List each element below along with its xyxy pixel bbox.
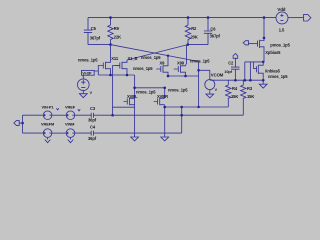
- svg-text:10pf: 10pf: [224, 69, 232, 74]
- node dot X9 source: [167, 75, 170, 78]
- ground below VCOM: [206, 90, 214, 98]
- wire N drop left: [244, 62, 246, 80]
- wire pmos drain to N: [263, 53, 265, 62]
- wire tail leg down: [134, 75, 136, 105]
- transistor X1B: [115, 56, 138, 75]
- capacitor C6: [204, 18, 221, 45]
- wire input split vertical: [22, 115, 24, 133]
- svg-text:nmos_1p5: nmos_1p5: [141, 55, 161, 60]
- wire X1B gate down to tail link: [113, 66, 120, 108]
- svg-text:R4: R4: [232, 86, 238, 91]
- wire diff pair source rail: [98, 74, 134, 76]
- wire diagonal D1 left output to second stage: [111, 45, 199, 62]
- node dot summing on rail A: [180, 114, 183, 117]
- wire rail B input bottom: [75, 132, 91, 134]
- wire VREFM to VINM: [52, 132, 66, 134]
- node dot N drop2: [249, 79, 252, 82]
- ground below VREFM: [45, 137, 51, 142]
- svg-text:nmos_1p5: nmos_1p5: [136, 89, 156, 94]
- node dot C6 top: [207, 16, 210, 19]
- transistor X9: [156, 60, 168, 76]
- wire summing vertical: [181, 107, 183, 133]
- port output right: [304, 14, 311, 21]
- svg-text:X99: X99: [177, 60, 185, 65]
- node dot M at second stage vertical: [197, 106, 199, 108]
- svg-text:VCOM: VCOM: [211, 72, 224, 77]
- svg-text:VREFM: VREFM: [41, 121, 54, 126]
- voltage source VCOM: [205, 72, 224, 89]
- svg-text:nmos_1p5: nmos_1p5: [268, 74, 288, 79]
- wire X9 drain to D1: [167, 56, 169, 65]
- node dot X11 source: [109, 74, 112, 77]
- node dot C2 bottom: [234, 79, 237, 82]
- svg-text:VINM: VINM: [65, 121, 74, 126]
- svg-text:nmos_1p5: nmos_1p5: [190, 58, 210, 63]
- wire nbias diode loop: [252, 62, 254, 69]
- capacitor C3: [88, 106, 243, 123]
- wire input to VREFM: [23, 132, 44, 134]
- wire XVBL source to ground: [134, 105, 136, 137]
- wire VINP1 to VREF: [52, 114, 66, 116]
- voltage source VINM: [65, 121, 75, 137]
- svg-text:R2: R2: [191, 26, 197, 31]
- wire X11 gate to VI-OP source: [94, 66, 99, 72]
- voltage source VINP1: [42, 104, 59, 119]
- svg-text:VI-OP: VI-OP: [82, 72, 92, 76]
- node dot N drop: [244, 79, 247, 82]
- voltage source Vdd: [276, 7, 288, 33]
- node dot X99 source: [184, 75, 187, 78]
- node dot M left: [163, 106, 166, 109]
- wire H2a C5 bottom to R9 bottom: [88, 44, 111, 46]
- node dot stage1 right output: [187, 43, 190, 46]
- wire X11 drain vertical: [110, 45, 112, 60]
- svg-text:36pf: 36pf: [88, 136, 97, 141]
- wire input port stem: [19, 122, 22, 124]
- wire XVBR source to ground: [164, 105, 166, 137]
- svg-text:nmos_1p5: nmos_1p5: [168, 87, 188, 92]
- svg-text:15K: 15K: [231, 94, 238, 99]
- port up arrow above C2: [233, 54, 238, 59]
- node dot bridge on rail A: [111, 114, 114, 117]
- svg-text:VIN-P1: VIN-P1: [42, 104, 55, 109]
- wire Vdd to output port: [288, 17, 303, 19]
- svg-text:C6: C6: [210, 27, 216, 32]
- node dot stage1 left output: [109, 43, 112, 46]
- wire R2 bottom to C6 bottom: [188, 44, 208, 46]
- node dot X9 drain on D1: [167, 55, 169, 57]
- wire nbias source to ground: [262, 75, 264, 85]
- node dot X1B source: [126, 74, 129, 77]
- wire pbias port to gate: [248, 43, 257, 45]
- ground below XVBR: [161, 137, 169, 141]
- transistor X11: [100, 56, 119, 75]
- wire tail bus: [135, 87, 165, 89]
- transistor XVBR: [154, 94, 168, 105]
- svg-text:C4: C4: [90, 125, 96, 130]
- capacitor C2: [224, 58, 239, 80]
- node dot R2 top: [187, 16, 190, 19]
- svg-text:pmos_1p5: pmos_1p5: [270, 42, 290, 47]
- resistor R3: [241, 80, 255, 115]
- node dot M mid: [180, 106, 183, 109]
- svg-text:X1_B: X1_B: [128, 56, 138, 61]
- svg-text:nmos_1p5: nmos_1p5: [78, 57, 98, 62]
- voltage source VREF: [65, 104, 80, 119]
- svg-text:XVBR: XVBR: [157, 94, 168, 99]
- wire input to VINP1: [23, 114, 44, 116]
- capacitor C5: [84, 18, 101, 45]
- wire rail A input top: [75, 114, 91, 116]
- node dot R9 top: [109, 16, 112, 19]
- svg-text:1.5: 1.5: [279, 28, 285, 33]
- ground below Xnbias5: [259, 84, 267, 88]
- resistor R9: [108, 18, 121, 45]
- svg-text:R3: R3: [247, 86, 253, 91]
- wire Vdd top rail: [88, 17, 276, 19]
- svg-text:C5: C5: [91, 26, 97, 31]
- wire M summing link: [165, 106, 229, 108]
- svg-text:22K: 22K: [114, 35, 121, 40]
- wire gate link bridge: [113, 107, 135, 115]
- resistor R4: [226, 80, 239, 107]
- voltage source VREFM: [41, 121, 54, 137]
- node dot tail bus right: [163, 87, 166, 90]
- node dot input split: [21, 122, 24, 125]
- net flag VI-OP: [82, 70, 95, 75]
- svg-text:Xnbias5: Xnbias5: [265, 68, 281, 73]
- ground below VI-OP: [79, 90, 87, 98]
- port input left: [14, 121, 19, 126]
- wire XVBR drain vertical: [164, 88, 166, 98]
- node dot pmos source: [263, 37, 266, 40]
- wire rail P common node: [210, 79, 263, 81]
- port pbias left: [243, 41, 248, 45]
- transistor Xnbias5: [253, 62, 288, 79]
- resistor R2: [185, 18, 198, 45]
- node dot Vdd branch: [263, 16, 266, 19]
- svg-text:X11: X11: [111, 56, 119, 61]
- svg-text:XVBL: XVBL: [127, 94, 138, 99]
- svg-text:367pf: 367pf: [90, 35, 101, 40]
- transistor Xpbias5 pmos: [258, 38, 291, 55]
- svg-text:15K: 15K: [247, 94, 254, 99]
- wire stub gate net to source rail: [97, 71, 99, 75]
- node dot tail bus left: [133, 87, 136, 90]
- svg-text:Vdd: Vdd: [277, 7, 285, 12]
- svg-text:C2: C2: [228, 60, 234, 65]
- wire second stage source rail: [168, 75, 199, 77]
- transistor XVBL: [124, 94, 139, 105]
- capacitor C4: [88, 125, 182, 142]
- transistor X99: [174, 60, 186, 76]
- svg-text:nmos_1p5: nmos_1p5: [133, 66, 153, 71]
- svg-text:X9: X9: [160, 60, 166, 65]
- wire X99 drain vertical to R2 node: [186, 45, 188, 65]
- svg-text:Xpbias5: Xpbias5: [265, 50, 281, 55]
- node dot nbias drain: [262, 61, 265, 64]
- voltage source VI-OP: [78, 75, 93, 95]
- wire second stage node vertical: [198, 62, 200, 108]
- svg-text:R9: R9: [114, 26, 120, 31]
- wire Vdd rail to pmos: [263, 18, 265, 38]
- wire to VCOM top: [199, 70, 210, 80]
- svg-text:VREF: VREF: [65, 104, 76, 109]
- wire diagonal D2 right output to X1B drain: [127, 45, 188, 60]
- svg-text:20K: 20K: [191, 35, 198, 40]
- node dot VCOM tee: [197, 69, 200, 72]
- node dot nbias source on rail P: [262, 79, 265, 82]
- svg-text:367pf: 367pf: [210, 34, 221, 39]
- ground below XVBL: [131, 137, 139, 141]
- wire X1B drain stub: [126, 60, 128, 61]
- wire N drop right: [249, 62, 251, 80]
- ground below VINM: [68, 137, 74, 142]
- svg-text:36pf: 36pf: [88, 118, 97, 123]
- wire N bias node: [245, 61, 263, 63]
- svg-text:C3: C3: [90, 106, 96, 111]
